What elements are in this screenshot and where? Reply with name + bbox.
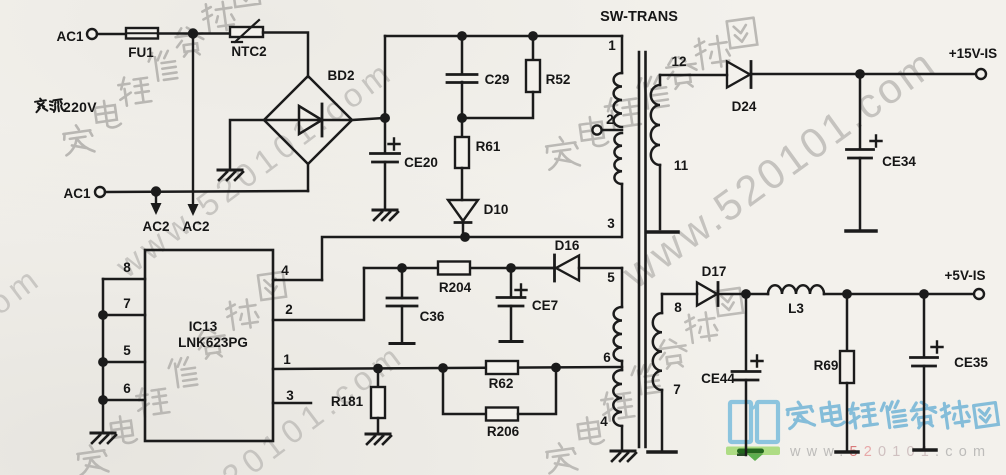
svg-text:R69: R69 xyxy=(814,358,839,373)
ground bar CE35 xyxy=(914,448,936,452)
pin 5 stub xyxy=(103,361,145,364)
svg-text:D10: D10 xyxy=(484,202,509,217)
watermark run www.520101.com left xyxy=(108,55,396,285)
ground bar R69 xyxy=(836,450,858,454)
resistor R69 xyxy=(846,294,849,351)
watermark run big www.520101.com right xyxy=(613,41,942,298)
wire AC1 to FU1 xyxy=(97,33,126,36)
pin 2 wire xyxy=(273,268,364,320)
label 交流220V xyxy=(35,98,64,113)
ground IC bus xyxy=(91,432,115,435)
ground bar CE34 xyxy=(846,229,876,233)
capacitor CE7 xyxy=(510,268,513,297)
transformer primary winding 1-2-3 xyxy=(621,36,624,73)
pin 7 stub xyxy=(103,314,145,317)
svg-text:R206: R206 xyxy=(487,424,520,439)
capacitor CE20 xyxy=(384,36,387,153)
junction CE34 xyxy=(855,69,865,79)
capacitor CE34 xyxy=(859,74,862,149)
bridge rectifier BD2 xyxy=(264,76,352,164)
svg-text:R181: R181 xyxy=(331,394,364,409)
svg-text:AC1: AC1 xyxy=(56,29,83,44)
logo book icon xyxy=(730,402,778,442)
pin 6 stub xyxy=(103,399,145,402)
wire L3 to +5V xyxy=(824,293,974,296)
diode D17 xyxy=(697,283,717,306)
junction rail C29 xyxy=(457,31,467,41)
svg-text:CE7: CE7 xyxy=(532,298,558,313)
junction drain line xyxy=(460,232,470,242)
svg-text:D24: D24 xyxy=(732,99,757,114)
pin 8 stub xyxy=(103,278,145,281)
capacitor CE44 xyxy=(745,294,748,371)
resistor R52 xyxy=(532,36,535,60)
capacitor C29 xyxy=(461,36,464,74)
terminal +5V-IS xyxy=(974,289,984,299)
svg-text:R61: R61 xyxy=(476,139,501,154)
svg-text:SW-TRANS: SW-TRANS xyxy=(600,9,678,25)
svg-text:CE35: CE35 xyxy=(954,355,988,370)
watermark run top-left 家电维修资料网 xyxy=(62,0,260,155)
svg-text:11: 11 xyxy=(674,158,689,173)
svg-text:C29: C29 xyxy=(485,72,510,87)
wire 8 to D17 xyxy=(662,293,697,296)
svg-text:1: 1 xyxy=(283,352,291,367)
svg-text:AC2: AC2 xyxy=(142,219,169,234)
svg-text:4: 4 xyxy=(281,263,289,278)
watermark run bottom-left 家电维修资料网 xyxy=(76,272,286,475)
svg-text:LNK623PG: LNK623PG xyxy=(178,335,248,350)
svg-text:NTC2: NTC2 xyxy=(231,44,266,59)
svg-text:220V: 220V xyxy=(63,99,97,115)
svg-text:IC13: IC13 xyxy=(189,319,218,334)
wire bridge left to ground xyxy=(230,120,264,168)
transformer winding 8-7 xyxy=(661,294,664,313)
resistor R181 xyxy=(377,368,380,387)
capacitor C36 xyxy=(401,268,404,298)
DC top rail xyxy=(385,35,622,38)
transformer secondary winding 12-11 xyxy=(659,75,662,85)
wire D17 to L3 xyxy=(718,293,768,296)
wire AC1 bottom xyxy=(105,191,308,192)
resistor R206 branch xyxy=(443,368,486,414)
svg-text:6: 6 xyxy=(603,350,611,365)
thermistor NTC2 xyxy=(230,27,263,37)
watermark run left-edge url tail xyxy=(0,261,44,475)
pin 1 wire xyxy=(273,367,622,369)
svg-text:8: 8 xyxy=(674,300,682,315)
junction AC2 left xyxy=(151,186,161,196)
terminal +15V-IS xyxy=(976,69,986,79)
svg-text:7: 7 xyxy=(123,296,131,311)
svg-text:6: 6 xyxy=(123,381,131,396)
diode D24 xyxy=(727,62,750,88)
transformer core xyxy=(639,52,646,447)
arrow AC2 left xyxy=(155,191,157,204)
wire node to AC2 arrow xyxy=(192,33,194,205)
wire drain line xyxy=(322,237,621,280)
svg-text:8: 8 xyxy=(123,260,131,275)
watermark run middle 家电维修资料网 xyxy=(545,18,757,170)
watermark run bottom-centre www.520101.com tail xyxy=(112,338,407,475)
svg-text:AC1: AC1 xyxy=(63,186,90,201)
svg-text:L3: L3 xyxy=(788,301,804,316)
svg-text:4: 4 xyxy=(600,414,608,429)
capacitor CE35 xyxy=(923,294,926,357)
ground R181 xyxy=(366,433,390,436)
svg-text:+5V-IS: +5V-IS xyxy=(945,268,986,283)
junction rail R52 xyxy=(528,31,538,41)
IC13 body xyxy=(145,250,273,441)
svg-text:R52: R52 xyxy=(546,72,571,87)
ground winding 4 xyxy=(611,450,635,453)
diode D16 xyxy=(511,267,554,270)
junction node top xyxy=(188,28,198,38)
svg-text:C36: C36 xyxy=(420,309,445,324)
svg-text:3: 3 xyxy=(607,216,615,231)
wire 12 to D24 xyxy=(660,74,727,77)
wire D24 to +15V xyxy=(751,73,976,76)
fuse FU1 xyxy=(126,28,158,39)
svg-text:D16: D16 xyxy=(555,238,580,253)
ground bar sec top xyxy=(648,230,678,234)
svg-text:AC2: AC2 xyxy=(182,219,209,234)
svg-text:CE20: CE20 xyxy=(404,155,438,170)
pin 3 stub xyxy=(273,402,311,405)
transformer winding 5-6-4 xyxy=(621,268,624,307)
logo text 家电维修资料网 xyxy=(786,400,998,429)
left bus wire xyxy=(102,279,105,432)
svg-text:1: 1 xyxy=(608,38,616,53)
svg-text:5: 5 xyxy=(123,343,131,358)
svg-text:CE44: CE44 xyxy=(701,371,735,386)
wire D16 to pin5 xyxy=(579,267,622,270)
diode D10 xyxy=(448,200,478,221)
resistor R61 xyxy=(461,118,464,137)
wire bridge bottom to AC line xyxy=(307,164,310,191)
ground bridge xyxy=(218,169,242,172)
svg-text:FU1: FU1 xyxy=(128,45,154,60)
svg-text:www.520101.com: www.520101.com xyxy=(789,444,991,460)
inductor L3 xyxy=(768,285,824,294)
svg-text:R204: R204 xyxy=(439,280,472,295)
svg-text:+15V-IS: +15V-IS xyxy=(949,46,997,61)
svg-text:5: 5 xyxy=(607,270,615,285)
wire pin4 stub xyxy=(273,279,322,282)
svg-text:3: 3 xyxy=(286,388,294,403)
svg-text:D17: D17 xyxy=(702,264,727,279)
junction C29/R61 xyxy=(457,113,467,123)
feedback line xyxy=(364,267,555,270)
svg-text:2: 2 xyxy=(606,112,614,127)
pin 2 tap xyxy=(602,129,622,132)
svg-text:R62: R62 xyxy=(489,376,514,391)
svg-text:2: 2 xyxy=(285,302,293,317)
ground CE20 xyxy=(373,209,397,212)
resistor R204 xyxy=(438,262,470,275)
svg-text:7: 7 xyxy=(673,382,681,397)
watermark run bottom-middle 家电维修资料网 xyxy=(545,288,743,473)
svg-text:12: 12 xyxy=(671,54,686,69)
ground bar winding 7 xyxy=(648,450,676,454)
svg-text:BD2: BD2 xyxy=(327,68,354,83)
wire FU1 to node xyxy=(158,32,230,35)
wire NTC2 to bridge xyxy=(263,33,308,78)
logo green marks xyxy=(726,447,780,462)
resistor R62 xyxy=(486,361,518,374)
svg-text:CE34: CE34 xyxy=(882,154,916,169)
wire bridge right to CE20 node xyxy=(352,118,385,120)
